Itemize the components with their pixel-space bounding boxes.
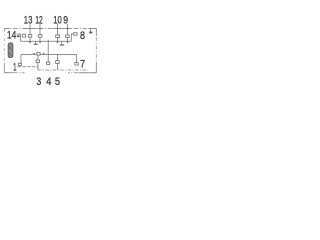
- svg-text:14: 14: [7, 29, 16, 41]
- coil: [8, 43, 13, 58]
- pin 14 drop to blade: [20, 34, 22, 41]
- pin 1 terminal: [18, 63, 21, 65]
- internal chain line bottom: [38, 69, 88, 71]
- pin 10 lead: [57, 24, 59, 35]
- svg-text:9: 9: [63, 14, 68, 26]
- case right edge (dash-dot): [95, 29, 97, 73]
- armature bar left: [34, 44, 38, 45]
- tick contact 13: [29, 37, 31, 41]
- blade rect pin3: [37, 52, 40, 55]
- case top solid corner left: [4, 28, 9, 30]
- fixed contact 13: [28, 35, 32, 38]
- case bottom edge (dash-dot): [4, 72, 96, 74]
- aux contact rect left: [23, 34, 26, 37]
- pin 8 terminal: [74, 33, 77, 35]
- pin 3 stem lower: [37, 63, 39, 71]
- pin 5 stem lower: [57, 63, 59, 70]
- svg-text:4: 4: [46, 76, 51, 88]
- fixed contact 3: [36, 60, 39, 63]
- bottom movable blade bus: [21, 53, 77, 55]
- svg-text:13: 13: [24, 14, 33, 26]
- case right edge solid top: [95, 29, 97, 37]
- background: [0, 0, 100, 100]
- pin 7 terminal: [75, 63, 78, 65]
- svg-text:8: 8: [80, 30, 85, 42]
- outline gap patch: [25, 72, 69, 74]
- svg-text:7: 7: [80, 58, 85, 70]
- pin 12 lead: [39, 24, 41, 35]
- pin 7 riser: [76, 54, 78, 62]
- corner pin 8 stub: [90, 29, 92, 32]
- armature bar right: [60, 44, 64, 45]
- svg-text:3: 3: [36, 76, 41, 88]
- pin 1 riser: [20, 54, 22, 63]
- case top solid run left: [24, 28, 43, 30]
- fixed contact 5: [56, 61, 59, 64]
- contact dimple 13: [29, 42, 31, 43]
- tick contact 12: [39, 37, 41, 41]
- bottom dimple b: [43, 53, 45, 54]
- pin 14 lead: [16, 33, 20, 35]
- case right edge solid bottom: [95, 62, 97, 73]
- contact dimple 10: [57, 42, 59, 43]
- fixed contact 12: [38, 35, 42, 38]
- contact dimple 9: [67, 42, 69, 43]
- contact dimple 12: [39, 42, 41, 43]
- case top solid run right: [53, 28, 72, 30]
- pin 3 stem upper: [37, 55, 39, 60]
- pin 9 lead: [67, 24, 69, 35]
- fixed contact 4: [47, 62, 50, 65]
- pin 14 pad: [17, 35, 20, 37]
- top movable blade bus: [21, 40, 72, 42]
- armature hanger T left: [35, 41, 37, 44]
- svg-text:1: 1: [13, 62, 16, 74]
- pin 5 stem upper: [57, 54, 59, 60]
- case left edge solid bottom: [3, 63, 5, 73]
- pin 8 lead: [71, 34, 73, 41]
- fixed contact 10: [56, 35, 60, 38]
- svg-text:12: 12: [35, 14, 43, 26]
- tick contact 9: [67, 38, 69, 42]
- case top edge (dash-dot): [4, 28, 96, 30]
- pin 1 under lead: [18, 66, 38, 68]
- case bottom solid corner right: [79, 72, 96, 74]
- bottom dimple a: [34, 53, 36, 54]
- tick contact 10: [57, 38, 59, 42]
- case bottom solid corner left: [4, 72, 13, 74]
- case left edge solid top: [3, 29, 5, 32]
- corner pin 8 pad: [89, 32, 92, 34]
- armature hanger T right: [61, 41, 63, 44]
- case top solid corner right: [89, 28, 97, 30]
- svg-text:5: 5: [55, 76, 60, 88]
- case left edge (dash-dot faint): [3, 29, 5, 73]
- fixed contact 9: [66, 35, 70, 38]
- pin 4 stem: [47, 40, 49, 62]
- pin 13 lead: [29, 24, 31, 35]
- svg-text:10: 10: [53, 14, 62, 26]
